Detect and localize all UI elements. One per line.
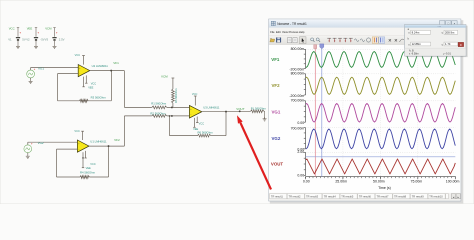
svg-text:Help: Help	[299, 30, 305, 34]
U3 feedback loop	[225, 112, 227, 136]
wire VG2 to U1 +input	[27, 142, 29, 145]
svg-text:x -9.58m: x -9.58m	[409, 53, 419, 56]
resistor R1	[152, 106, 167, 109]
svg-text:2.5V: 2.5V	[59, 37, 65, 41]
ground of VG1	[30, 80, 32, 82]
svg-text:12.88m: 12.88m	[412, 42, 422, 46]
cursor panel shadow	[406, 26, 468, 57]
U2 output wire and node VF1	[90, 70, 125, 72]
strip VG1 y-axis	[305, 101, 307, 122]
svg-text:VCC: VCC	[90, 162, 96, 166]
op-amp U1	[77, 140, 89, 152]
red annotation arrow	[240, 123, 271, 190]
generator VG2	[24, 145, 32, 153]
trace VG1	[306, 104, 456, 123]
U3 output wire to VOUT and RL	[202, 110, 251, 112]
svg-text:A, B: A, B	[409, 49, 414, 52]
panel red button	[458, 42, 463, 46]
svg-text:TR result2: TR result2	[289, 195, 302, 199]
panel footer separator	[405, 47, 466, 49]
svg-text:V3: V3	[45, 37, 49, 41]
svg-text:25.00m: 25.00m	[335, 180, 347, 184]
svg-text:208.9m: 208.9m	[445, 31, 455, 35]
panel title bar	[405, 25, 466, 28]
svg-text:700.00m: 700.00m	[291, 99, 305, 103]
resistor R4 (U1 feedback)	[80, 176, 89, 179]
svg-text:TR result9: TR result9	[412, 195, 425, 199]
svg-text:VG1: VG1	[272, 109, 281, 114]
strip VOUT dotted top gridline	[306, 151, 456, 153]
svg-text:R2 560Ohm: R2 560Ohm	[150, 111, 166, 115]
toolbar	[269, 36, 461, 45]
cursor a red vertical line	[314, 46, 316, 177]
svg-text:VOUT: VOUT	[271, 162, 284, 167]
strip VF2 y-axis	[305, 74, 307, 95]
U2 feedback loop	[58, 73, 79, 75]
svg-text:+: +	[19, 31, 21, 35]
cursor b blue vertical line	[321, 46, 323, 177]
U1 supply stubs below	[85, 151, 87, 158]
ground of V2	[35, 45, 37, 47]
svg-text:-5V: -5V	[40, 37, 44, 41]
svg-text:VCC: VCC	[199, 121, 205, 125]
svg-text:✕: ✕	[394, 38, 398, 43]
ground of VG2	[27, 154, 29, 156]
wire VF2 up to R2 row	[123, 116, 125, 146]
svg-text:8.24m: 8.24m	[412, 31, 420, 35]
svg-text:View: View	[282, 30, 288, 34]
op-amp U3	[189, 105, 201, 118]
trace VOUT	[306, 159, 456, 174]
svg-text:Time (s): Time (s)	[378, 186, 391, 190]
svg-text:V2: V2	[26, 37, 30, 41]
U1 VCC stub	[82, 131, 84, 140]
U1 output wire and node VF2	[89, 145, 124, 147]
U3 VCC stub above	[194, 96, 196, 106]
svg-text:VG1: VG1	[38, 66, 44, 70]
U1 feedback loop	[57, 148, 78, 150]
window buttons	[440, 21, 445, 26]
svg-text:y -9.01: y -9.01	[443, 53, 451, 56]
svg-text:TR result6: TR result6	[359, 195, 372, 199]
svg-text:VEE: VEE	[27, 27, 33, 31]
svg-text:800.00m: 800.00m	[291, 72, 305, 76]
title icon	[271, 21, 275, 25]
svg-text:VF2: VF2	[114, 138, 120, 142]
generator VG1	[27, 70, 35, 78]
svg-text:1.74: 1.74	[445, 42, 451, 46]
strip VF2 dotted top gridline	[306, 73, 456, 75]
cursor a handle	[314, 45, 317, 49]
svg-text:VEE: VEE	[88, 85, 93, 89]
svg-text:R3 560Ohm: R3 560Ohm	[91, 95, 107, 99]
ground of V1	[17, 45, 19, 47]
svg-text:-200.00m: -200.00m	[289, 68, 304, 72]
cursor b horizontal line y=1.74	[306, 156, 456, 158]
plot background	[269, 45, 461, 193]
svg-text:TR result10: TR result10	[429, 195, 443, 199]
strip VG2 y-axis	[305, 128, 307, 149]
plot grid dotted verticals	[342, 48, 344, 177]
svg-text:TR result5: TR result5	[341, 195, 354, 199]
svg-text:VG2: VG2	[38, 141, 44, 145]
svg-text:2.00: 2.00	[297, 150, 304, 154]
svg-text:VF1: VF1	[271, 57, 280, 62]
tab scroll buttons	[451, 194, 455, 199]
resistor R3 (U2 feedback)	[80, 99, 89, 102]
svg-text:VCM: VCM	[45, 27, 52, 31]
svg-text:VCC: VCC	[74, 129, 80, 133]
svg-text:R1 560Ohm: R1 560Ohm	[151, 102, 167, 106]
svg-text:TR result3: TR result3	[306, 195, 319, 199]
ground of RL	[264, 111, 266, 119]
svg-text:VCM: VCM	[161, 75, 168, 79]
resistor R6 (U3 feedback)	[198, 134, 211, 137]
wire VF1 down to R1 row	[123, 71, 125, 108]
svg-text:75.00m: 75.00m	[411, 180, 423, 184]
VCM stub and resistor R5	[172, 77, 175, 79]
strip VF1 y-axis	[305, 49, 307, 68]
strip VG2 dotted top gridline	[306, 127, 456, 129]
svg-text:✕: ✕	[388, 38, 392, 43]
strip VF1 dotted top gridline	[306, 48, 456, 50]
svg-text:VG2: VG2	[272, 136, 281, 141]
svg-text:+: +	[56, 31, 58, 35]
svg-text:V1: V1	[8, 37, 12, 41]
U2 supply stubs below	[85, 75, 87, 83]
trace VG2	[306, 129, 456, 149]
x axis	[306, 176, 456, 178]
svg-text:VF2: VF2	[272, 83, 281, 88]
cursor b handle	[320, 44, 324, 49]
svg-text:Noname - TR result1: Noname - TR result1	[277, 22, 307, 26]
trace VF1	[306, 52, 456, 68]
strip VG1 dotted top gridline	[306, 100, 456, 102]
svg-text:0.00: 0.00	[297, 173, 304, 177]
svg-text:U2 LMH6611: U2 LMH6611	[92, 64, 109, 68]
resistor RL	[251, 110, 264, 113]
svg-text:U1 LMH6611: U1 LMH6611	[90, 140, 107, 144]
svg-text:VCC: VCC	[91, 82, 97, 86]
svg-text:100.00m: 100.00m	[446, 180, 460, 184]
svg-text:5V: 5V	[22, 37, 26, 41]
ground of V3	[54, 45, 56, 47]
svg-text:RL 560Ohm: RL 560Ohm	[251, 107, 267, 111]
svg-text:VF1: VF1	[113, 61, 119, 65]
menu bar	[269, 28, 461, 36]
U3 supply stubs below	[196, 117, 198, 123]
resistor R2	[152, 115, 167, 118]
trace VF2	[306, 77, 456, 94]
svg-text:TR result8: TR result8	[394, 195, 407, 199]
U2 VCC stub	[83, 56, 85, 65]
op-amp U2	[78, 65, 90, 77]
cursor values panel	[405, 25, 467, 56]
svg-text:VOUT: VOUT	[236, 107, 245, 111]
svg-text:VCC: VCC	[9, 27, 15, 31]
svg-text:VEE: VEE	[86, 166, 91, 170]
svg-text:TR result1: TR result1	[271, 195, 284, 199]
strip VOUT y-axis	[305, 152, 307, 175]
svg-text:TR result4: TR result4	[324, 195, 337, 199]
svg-text:U3 LMH6611: U3 LMH6611	[203, 106, 220, 110]
toolbar icons	[270, 39, 275, 42]
wire VG1 to U2 +input	[30, 68, 32, 71]
svg-text:-200.00m: -200.00m	[289, 94, 304, 98]
svg-text:TR result7: TR result7	[377, 195, 390, 199]
svg-text:VCC: VCC	[192, 92, 198, 96]
svg-text:R4 560Ohm: R4 560Ohm	[80, 170, 96, 174]
svg-text:VCC: VCC	[75, 53, 81, 57]
window shadow	[270, 20, 464, 203]
svg-text:800.00m: 800.00m	[291, 47, 305, 51]
svg-text:R6 560Ohm: R6 560Ohm	[198, 131, 214, 135]
svg-text:R5 560Ohm: R5 560Ohm	[174, 88, 178, 103]
svg-text:File: File	[270, 30, 275, 34]
bottom tab strip	[269, 193, 461, 201]
svg-text:0.00: 0.00	[303, 180, 310, 184]
svg-text:700.00m: 700.00m	[291, 127, 305, 131]
waveform window frame	[269, 19, 461, 201]
svg-text:0.00: 0.00	[297, 121, 304, 125]
svg-text:+: +	[37, 31, 39, 35]
svg-text:Process: Process	[289, 30, 299, 34]
svg-text:Edit: Edit	[276, 30, 281, 34]
svg-text:50.00m: 50.00m	[373, 180, 385, 184]
